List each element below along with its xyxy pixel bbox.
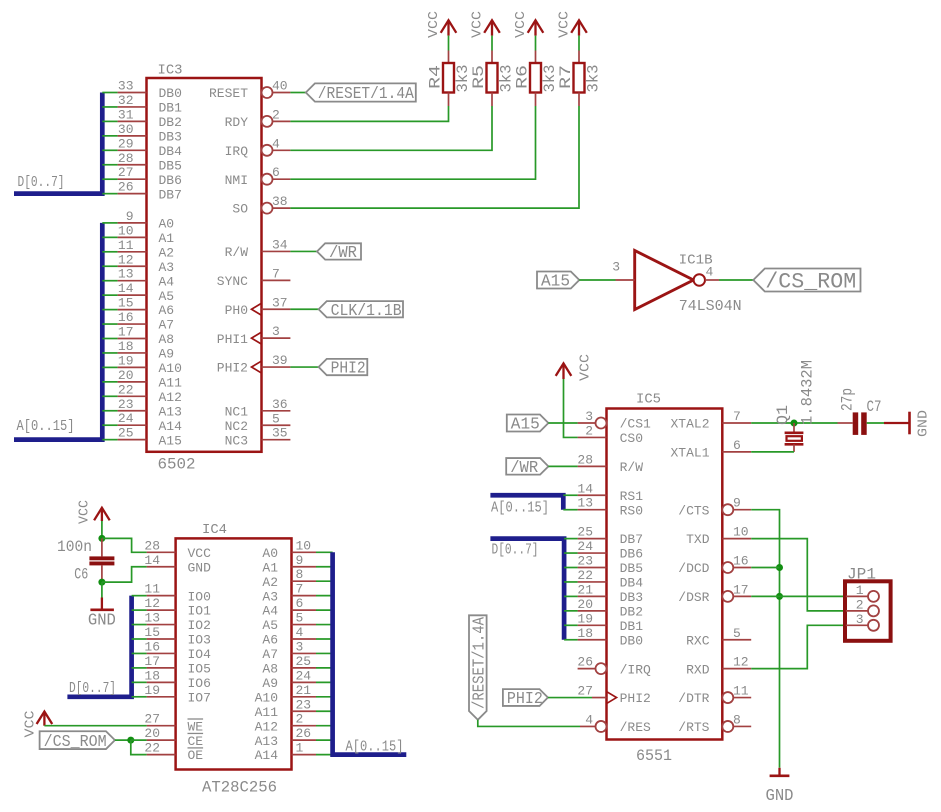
svg-text:A7: A7	[159, 318, 175, 333]
wire IC5 DB1 tap	[564, 624, 578, 626]
svg-text:21: 21	[296, 683, 312, 698]
svg-text:3: 3	[272, 324, 280, 339]
svg-text:A14: A14	[159, 419, 183, 434]
wire IC4 IO7 to bus	[132, 696, 147, 698]
wire DB1 bus tap	[102, 106, 117, 108]
svg-text:IRQ: IRQ	[225, 144, 249, 159]
pin IC5 DB1 (pin 19)	[578, 624, 607, 626]
wire IC5 DB3 tap	[564, 595, 578, 597]
svg-text:CE: CE	[188, 734, 204, 749]
pin IC3 A8 (pin 17)	[118, 338, 147, 340]
net label A15 at IC1B input	[537, 272, 579, 292]
svg-text:A7: A7	[262, 647, 278, 662]
pin IC3 A9 (pin 18)	[118, 352, 147, 354]
wire DB4 bus tap	[102, 149, 117, 151]
svg-text:A1: A1	[262, 560, 278, 575]
svg-text:20: 20	[144, 726, 160, 741]
svg-text:3: 3	[856, 612, 864, 627]
pin IC1B input (pin 3)	[616, 279, 635, 281]
svg-text:RS1: RS1	[620, 489, 644, 504]
svg-text:2: 2	[585, 423, 593, 438]
svg-text:C7: C7	[867, 398, 882, 416]
svg-text:A12: A12	[255, 719, 278, 734]
svg-text:DB5: DB5	[159, 158, 182, 173]
svg-text:40: 40	[272, 79, 288, 94]
svg-text:38: 38	[272, 194, 288, 209]
junction node XTAL2/Q1/C7	[791, 420, 798, 427]
svg-text:A15: A15	[159, 433, 182, 448]
svg-text:A6: A6	[262, 633, 278, 648]
wire node to GND symbol	[101, 582, 103, 597]
svg-text:VCC: VCC	[578, 354, 594, 381]
wire A7 bus tap	[102, 323, 117, 325]
pin IC3 A2 (pin 11)	[118, 251, 147, 253]
svg-text:A[0..15]: A[0..15]	[491, 500, 549, 517]
pin IC3 DB0 (pin 33)	[118, 92, 147, 94]
svg-text:PHI2: PHI2	[507, 690, 543, 709]
svg-text:24: 24	[577, 539, 593, 554]
ACIA IC IC5 6551 body	[607, 409, 723, 740]
pin IC5 /RES (pin 4)	[596, 721, 607, 732]
svg-text:SO: SO	[232, 202, 248, 217]
svg-text:VCC: VCC	[513, 11, 529, 38]
svg-text:DB3: DB3	[620, 590, 643, 605]
wire A4 bus tap	[102, 280, 117, 282]
svg-text:XTAL2: XTAL2	[670, 417, 709, 432]
svg-text:23: 23	[296, 697, 312, 712]
pin IC3 A3 (pin 12)	[118, 265, 147, 267]
pin IC3 SO (pin 38)	[262, 203, 273, 214]
pin IC4 A3 (pin 7)	[292, 595, 317, 597]
op IC IC3 6502 CPU body	[147, 78, 262, 452]
wire A15 bus tap	[102, 439, 117, 441]
pin IC3 A13 (pin 23)	[118, 410, 147, 412]
pin IC3 NC2 (pin 5)	[262, 424, 291, 426]
svg-text:A3: A3	[159, 260, 175, 275]
net label /CS_ROM at IC1B	[753, 269, 860, 295]
svg-text:23: 23	[577, 554, 593, 569]
wire DB7 bus tap	[102, 193, 117, 195]
svg-text:VCC: VCC	[188, 546, 212, 561]
net label A15 at IC5	[507, 415, 549, 435]
pin IC5 RXC (pin 5)	[722, 639, 751, 641]
svg-text:/WR: /WR	[510, 459, 538, 478]
net label PHI2 at IC5	[503, 689, 548, 709]
svg-text:DB3: DB3	[159, 129, 182, 144]
wire /DSR to JP1 pin 1	[751, 595, 846, 597]
pin IC3 PHI1 (pin 3)	[262, 337, 291, 339]
pin IC5 DB3 (pin 21)	[578, 595, 607, 597]
svg-text:33: 33	[118, 79, 134, 94]
wire TXD to JP1 pin 2	[751, 539, 846, 611]
net label /CS_ROM at IC4	[40, 731, 115, 752]
svg-text:/IRQ: /IRQ	[620, 662, 651, 677]
svg-text:A15: A15	[511, 416, 540, 435]
wire A15 to IC5 /CS1	[548, 422, 577, 424]
svg-text:GND: GND	[766, 787, 794, 806]
svg-text:PHI2: PHI2	[217, 361, 248, 376]
svg-text:3: 3	[612, 260, 620, 275]
pin IC4 IO4 (pin 16)	[147, 652, 176, 654]
wire IC5 RS1 tap	[563, 494, 577, 496]
wire junction to IC4 CE	[131, 739, 147, 741]
svg-text:D[0..7]: D[0..7]	[18, 174, 65, 191]
wire net /RESET/1.4A from IC3 RESET	[290, 92, 305, 94]
pin IC3 A0 (pin 9)	[118, 222, 147, 224]
wire A11 bus tap	[102, 381, 117, 383]
svg-text:IO1: IO1	[188, 604, 212, 619]
pin IC4 GND (pin 14)	[147, 566, 176, 568]
svg-text:A5: A5	[159, 289, 175, 304]
pin IC3 DB4 (pin 29)	[118, 149, 147, 151]
pin IC4 A10 (pin 21)	[292, 696, 317, 698]
wire IC1B output to /CS_ROM	[719, 279, 753, 281]
power VCC above R4	[441, 20, 457, 35]
svg-text:22: 22	[144, 741, 160, 756]
wire /DCD tap	[751, 567, 779, 569]
pin IC3 DB7 (pin 26)	[118, 193, 147, 195]
wire node to IC4 VCC pin	[102, 538, 147, 552]
svg-text:/RESET/1.4A: /RESET/1.4A	[318, 85, 415, 104]
wire IC5 DB4 tap	[564, 581, 578, 583]
wire IC4 IO2 to bus	[132, 624, 147, 626]
svg-text:22: 22	[118, 382, 134, 397]
svg-text:24: 24	[296, 668, 312, 683]
pin IC4 IO0 (pin 11)	[147, 595, 176, 597]
svg-text:1: 1	[296, 741, 304, 756]
wire IC5 XTAL2 to crystal node	[751, 422, 837, 424]
resistor R6 3k3	[535, 51, 537, 64]
svg-text:DB7: DB7	[620, 532, 643, 547]
svg-text:IC5: IC5	[636, 392, 661, 408]
svg-text:26: 26	[296, 726, 312, 741]
pin IC5 TXD (pin 10)	[722, 538, 751, 540]
wire DB3 bus tap	[102, 135, 117, 137]
svg-text:DB7: DB7	[159, 187, 182, 202]
wire A5 bus tap	[102, 294, 117, 296]
pin IC5 RS1 (pin 14)	[578, 494, 607, 496]
svg-text:13: 13	[577, 496, 593, 511]
pin IC4 A1 (pin 9)	[292, 566, 317, 568]
svg-text:A3: A3	[262, 589, 278, 604]
resistor R7 3k3	[578, 51, 580, 64]
pin IC3 A4 (pin 13)	[118, 280, 147, 282]
svg-text:IO4: IO4	[188, 647, 212, 662]
svg-text:24: 24	[118, 411, 134, 426]
svg-text:3k3: 3k3	[585, 65, 603, 93]
svg-text:8: 8	[733, 712, 741, 727]
pin IC3 IRQ (pin 4)	[262, 145, 273, 156]
svg-text:/DTR: /DTR	[678, 691, 709, 706]
wire A13 bus tap	[102, 410, 117, 412]
svg-text:17: 17	[118, 325, 134, 340]
wire VCC to IC4 WE	[44, 725, 146, 727]
ground at bottom right	[778, 768, 780, 776]
svg-text:R/W: R/W	[225, 245, 249, 260]
svg-text:1: 1	[856, 583, 864, 598]
memory IC IC4 AT28C256 body	[176, 538, 292, 769]
pin IC5 RS0 (pin 13)	[578, 509, 607, 511]
pin IC5 CS0 (pin 2)	[578, 436, 607, 438]
svg-text:C6: C6	[74, 566, 88, 584]
svg-text:37: 37	[272, 295, 288, 310]
wire IC5 DB0 tap	[564, 639, 578, 641]
svg-text:18: 18	[144, 668, 160, 683]
pin IC3 A5 (pin 14)	[118, 294, 147, 296]
pin IC3 A12 (pin 22)	[118, 395, 147, 397]
svg-text:23: 23	[118, 397, 134, 412]
svg-text:21: 21	[577, 582, 593, 597]
svg-text:6: 6	[733, 438, 741, 453]
wire A2 bus tap	[102, 251, 117, 253]
svg-text:5: 5	[296, 611, 304, 626]
wire DB6 bus tap	[102, 178, 117, 180]
svg-text:VCC: VCC	[77, 500, 93, 524]
svg-text:DB6: DB6	[159, 173, 182, 188]
wire IC5 DB2 tap	[564, 610, 578, 612]
net label CLK/1.1B	[319, 301, 403, 321]
svg-text:GND: GND	[916, 410, 932, 437]
wire VCC to R5	[491, 36, 493, 51]
pin IC3 PH0 (pin 37)	[262, 308, 291, 310]
pin IC5 XTAL2 (pin 7)	[722, 422, 751, 424]
wire A6 bus tap	[102, 309, 117, 311]
pin IC3 NC3 (pin 35)	[262, 439, 291, 441]
wire R5 to IC3 pin row	[290, 106, 492, 150]
pin IC4 IO1 (pin 12)	[147, 609, 176, 611]
svg-text:PHI2: PHI2	[331, 360, 366, 379]
pin IC3 NC1 (pin 36)	[262, 410, 291, 412]
svg-text:NC3: NC3	[225, 433, 248, 448]
pin IC4 VCC (pin 28)	[147, 551, 176, 553]
pin IC3 A7 (pin 16)	[118, 323, 147, 325]
svg-text:34: 34	[272, 237, 288, 252]
power VCC at IC5 CS0	[556, 363, 572, 379]
svg-text:18: 18	[577, 626, 593, 641]
pin IC5 /IRQ (pin 26)	[596, 663, 607, 674]
svg-text:20: 20	[118, 368, 134, 383]
svg-text:NC1: NC1	[225, 404, 249, 419]
svg-text:DB2: DB2	[159, 115, 182, 130]
wire A10 bus tap	[102, 366, 117, 368]
pin JP1 2	[846, 610, 868, 612]
svg-text:3: 3	[585, 409, 593, 424]
pin IC3 DB1 (pin 32)	[118, 106, 147, 108]
power VCC at IC4 WE	[37, 712, 53, 726]
svg-text:4: 4	[585, 712, 593, 727]
svg-text:VCC: VCC	[557, 11, 573, 38]
bus D[0..7] at IC5	[490, 539, 564, 640]
svg-text:4: 4	[706, 265, 714, 280]
svg-text:11: 11	[144, 582, 160, 597]
svg-text:A0: A0	[262, 546, 278, 561]
svg-text:A2: A2	[262, 575, 278, 590]
wire IC4 A13 to bus	[316, 739, 333, 741]
pin IC5 DB7 (pin 25)	[578, 538, 607, 540]
bus D[0..7] at IC4	[67, 596, 131, 697]
svg-text:NMI: NMI	[225, 173, 248, 188]
wire VCC to R6	[535, 36, 537, 51]
bus A[0..15] at IC3	[14, 223, 102, 440]
svg-text:2: 2	[856, 597, 864, 612]
svg-text:RESET: RESET	[209, 86, 248, 101]
svg-text:A10: A10	[255, 690, 278, 705]
svg-text:AT28C256: AT28C256	[202, 779, 277, 797]
wire IC4 IO3 to bus	[132, 638, 147, 640]
pin IC5 RXD (pin 12)	[722, 668, 751, 670]
pin IC3 R/W (pin 34)	[262, 250, 291, 252]
pin IC3 NMI (pin 6)	[262, 174, 273, 185]
svg-text:10: 10	[118, 223, 134, 238]
svg-text:/CTS: /CTS	[678, 503, 709, 518]
wire IC4 IO5 to bus	[132, 667, 147, 669]
svg-text:A11: A11	[255, 705, 279, 720]
pin IC5 DB6 (pin 24)	[578, 552, 607, 554]
pin IC4 A4 (pin 6)	[292, 609, 317, 611]
svg-text:15: 15	[118, 296, 134, 311]
power VCC above R7	[571, 20, 587, 35]
pin IC5 /RTS (pin 8)	[722, 721, 733, 732]
svg-text:DB0: DB0	[159, 86, 182, 101]
wire IC4 A11 to bus	[316, 710, 333, 712]
net label /WR at IC5	[506, 458, 548, 478]
svg-text:14: 14	[577, 481, 593, 496]
IC1B output bubble	[694, 274, 705, 285]
svg-text:28: 28	[144, 538, 160, 553]
svg-text:14: 14	[118, 281, 134, 296]
svg-text:PHI1: PHI1	[217, 332, 248, 347]
svg-text:32: 32	[118, 93, 134, 108]
svg-text:A2: A2	[159, 245, 175, 260]
pin IC4 A8 (pin 25)	[292, 667, 317, 669]
svg-text:7: 7	[272, 266, 280, 281]
svg-text:19: 19	[118, 353, 134, 368]
wire A1 bus tap	[102, 236, 117, 238]
svg-text:DB4: DB4	[620, 576, 644, 591]
pin IC4 A9 (pin 24)	[292, 681, 317, 683]
pin IC5 /DTR (pin 11)	[722, 692, 733, 703]
wire IC5 XTAL1 to crystal	[751, 451, 794, 453]
svg-text:29: 29	[118, 136, 134, 151]
junction node /DSR rail	[776, 593, 783, 600]
svg-text:CLK/1.1B: CLK/1.1B	[331, 302, 402, 321]
wire IC5 DB7 tap	[564, 538, 578, 540]
svg-text:RDY: RDY	[225, 115, 249, 130]
svg-text:A4: A4	[159, 274, 175, 289]
pin IC5 PHI2 (pin 27)	[592, 697, 607, 699]
pin IC4 A6 (pin 4)	[292, 638, 317, 640]
pin IC4 WE (pin 27)	[147, 725, 176, 727]
pin IC5 /CTS (pin 9)	[722, 504, 733, 515]
svg-text:NC2: NC2	[225, 419, 248, 434]
svg-text:VCC: VCC	[426, 11, 442, 38]
wire net PHI2 from IC3 PHI2	[290, 366, 318, 368]
pin IC3 A1 (pin 10)	[118, 236, 147, 238]
svg-text:PH0: PH0	[225, 303, 248, 318]
svg-text:5: 5	[272, 411, 280, 426]
svg-text:A14: A14	[255, 748, 279, 763]
svg-text:15: 15	[144, 625, 160, 640]
pin IC5 /CS1 (pin 3)	[596, 418, 607, 429]
pin IC4 IO7 (pin 19)	[147, 696, 176, 698]
svg-text:IO6: IO6	[188, 676, 211, 691]
svg-text:10: 10	[296, 538, 312, 553]
power VCC above R5	[484, 20, 500, 35]
svg-text:27: 27	[577, 684, 593, 699]
wire IC4 A0 to bus	[316, 551, 333, 553]
wire A12 bus tap	[102, 395, 117, 397]
wire junction to IC4 OE	[131, 740, 147, 754]
svg-text:/RES: /RES	[620, 720, 651, 735]
wire /RESET/1.4A to IC5 /RES	[478, 720, 580, 727]
power VCC above R6	[528, 20, 544, 35]
svg-text:16: 16	[118, 310, 134, 325]
resistor R4 3k3	[448, 51, 450, 64]
svg-text:13: 13	[144, 611, 160, 626]
svg-text:26: 26	[118, 180, 134, 195]
wire RXD to JP1 pin 3	[751, 625, 846, 668]
svg-text:/WR: /WR	[329, 244, 357, 263]
wire A3 bus tap	[102, 265, 117, 267]
svg-text:GND: GND	[188, 560, 212, 575]
svg-text:A0: A0	[159, 217, 175, 232]
svg-text:A8: A8	[159, 332, 175, 347]
pin IC3 RESET (pin 40)	[262, 87, 273, 98]
svg-text:WE: WE	[188, 719, 204, 734]
pin IC4 A0 (pin 10)	[292, 551, 317, 553]
net label PHI2 at IC3	[319, 359, 368, 379]
pin IC3 A6 (pin 15)	[118, 309, 147, 311]
pin IC3 A14 (pin 24)	[118, 424, 147, 426]
svg-text:R7: R7	[557, 65, 575, 89]
svg-text:27p: 27p	[839, 388, 857, 411]
svg-text:2: 2	[272, 107, 280, 122]
pin JP1 3	[846, 624, 868, 626]
svg-text:18: 18	[118, 339, 134, 354]
svg-text:R/W: R/W	[620, 460, 644, 475]
pin IC3 PHI2 (pin 39)	[262, 366, 291, 368]
svg-text:PHI2: PHI2	[620, 691, 651, 706]
svg-text:19: 19	[144, 683, 160, 698]
wire IC4 A4 to bus	[316, 609, 333, 611]
svg-text:31: 31	[118, 107, 134, 122]
svg-text:17: 17	[144, 654, 160, 669]
wire A0 bus tap	[102, 222, 117, 224]
bus A[0..15] at IC4	[333, 552, 407, 754]
svg-text:A6: A6	[159, 303, 175, 318]
svg-text:39: 39	[272, 353, 288, 368]
svg-text:100n: 100n	[57, 538, 92, 556]
svg-text:A11: A11	[159, 375, 183, 390]
wire IC4 IO4 to bus	[132, 652, 147, 654]
svg-text:D[0..7]: D[0..7]	[492, 542, 539, 559]
svg-text:SYNC: SYNC	[217, 274, 248, 289]
pin IC4 A2 (pin 8)	[292, 580, 317, 582]
pin IC4 A7 (pin 3)	[292, 652, 317, 654]
wire IC4 A8 to bus	[316, 667, 333, 669]
wire IC4 A12 to bus	[316, 725, 333, 727]
svg-text:A9: A9	[159, 347, 175, 362]
wire A8 bus tap	[102, 338, 117, 340]
svg-text:4: 4	[272, 136, 280, 151]
wire IC4 IO6 to bus	[132, 681, 147, 683]
svg-text:A10: A10	[159, 361, 182, 376]
svg-text:9: 9	[126, 209, 134, 224]
svg-text:19: 19	[577, 611, 593, 626]
resistor R5 3k3	[491, 51, 493, 64]
svg-text:74LS04N: 74LS04N	[679, 298, 742, 315]
pin IC5 DB5 (pin 23)	[578, 567, 607, 569]
